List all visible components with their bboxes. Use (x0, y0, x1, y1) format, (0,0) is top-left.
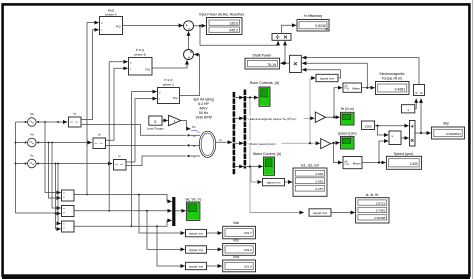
motor terminal A (187, 134, 189, 136)
svg-text:phase C: phase C (163, 82, 175, 86)
constant block 1500 (362, 121, 375, 130)
wire divide to % efficiency display (282, 25, 297, 33)
wire gain to Te scope (326, 116, 340, 118)
svg-text:2.563: 2.563 (315, 180, 323, 184)
wire slip sum to Slip display (415, 132, 431, 134)
wire phase B tap to vab (49, 143, 61, 199)
wire speed branch down to Mean2 (334, 143, 343, 163)
svg-text:Ic: Ic (118, 154, 121, 158)
svg-text:Va, Vb, Vc: Va, Vb, Vc (185, 197, 202, 201)
wire P&Q C to lower sum (180, 55, 200, 96)
svg-text:3ph IM rating: 3ph IM rating (193, 97, 213, 101)
svg-text:Torque (N.m): Torque (N.m) (382, 76, 402, 80)
svg-text:signal rms: signal rms (320, 76, 335, 80)
wire vca tap up to P&Q C input 1 (132, 92, 157, 227)
signal rms block (Vbc) (186, 246, 207, 253)
wire signal rms1 to product input 3 (302, 70, 340, 78)
mean block 1 (343, 83, 362, 92)
signal name electromagnetic torque (248, 116, 304, 121)
wire slip divide to slip sum input 2 (401, 137, 409, 139)
svg-text:2.563: 2.563 (315, 172, 323, 176)
signal rms block 2 (stator) (263, 178, 285, 185)
motor terminal B (187, 144, 189, 146)
svg-text:219.8: 219.8 (244, 264, 252, 268)
wire torque branch up to Mean1 (334, 88, 342, 118)
neutral rail wire (15, 122, 17, 213)
svg-text:345.2: 345.2 (229, 28, 238, 32)
svg-text:4.30388: 4.30388 (374, 216, 385, 220)
svg-text:Vca: Vca (233, 255, 239, 259)
wire mux to voltage scope (175, 210, 185, 212)
signal rms block 3 (rotor) (309, 209, 331, 216)
wire shaft power branch to divide input 2 (284, 41, 286, 63)
sum block (P+Q totals) lower (184, 50, 194, 60)
signal rms block (Vca) (186, 262, 207, 269)
wire Mean2 to Speed display (362, 162, 386, 164)
gain block torque (315, 112, 325, 122)
svg-text:Electromagnetic: Electromagnetic (379, 72, 404, 76)
gain block speed (321, 139, 331, 149)
svg-text:PQ: PQ (116, 25, 121, 29)
wire speed branch up to signal rms1 (310, 78, 316, 143)
wire signal rms to Vbc display (207, 248, 222, 250)
wire P&Q A to upper sum (123, 25, 183, 27)
wire bar1 to bar2 speed (235, 142, 243, 144)
signal rms block 1 (top) (316, 74, 338, 81)
constant block Load Torque (149, 116, 162, 125)
svg-text:signal rms: signal rms (189, 232, 204, 236)
wire P&Q B to lower sum (152, 60, 187, 68)
voltage measurement block vab (62, 190, 75, 201)
subsystem P&Q phase A (100, 17, 123, 35)
wire vbc tap up to P&Q B input 1 (109, 62, 128, 211)
subsystem P&Q phase C (158, 88, 180, 104)
svg-text:219.2: 219.2 (244, 248, 252, 252)
wire gain to motor Tm input (181, 121, 191, 129)
svg-text:Shaft Power: Shaft Power (252, 54, 272, 58)
svg-text:m: m (219, 138, 222, 142)
svg-text:phase B: phase B (134, 52, 145, 56)
wire Va to Ia (36, 121, 67, 123)
current measurement block Ib (93, 138, 106, 149)
svg-text:% efficiency: % efficiency (304, 14, 323, 18)
svg-text:Tm: Tm (192, 125, 197, 129)
svg-text:0.0500094: 0.0500094 (446, 132, 461, 136)
svg-text:signal rms: signal rms (189, 248, 204, 252)
wire subtract block to product input 1 (302, 58, 419, 85)
svg-text:Slip: Slip (443, 121, 449, 125)
svg-text:signal rms: signal rms (266, 181, 281, 185)
wire demux torque to gain (246, 117, 314, 119)
wire phase C tap to vbc (56, 164, 61, 214)
svg-text:Vbc: Vbc (233, 238, 239, 242)
wire Vc to Ic (36, 163, 112, 165)
wire phase C tap to vca (58, 164, 61, 224)
svg-text:75.19: 75.19 (267, 63, 276, 67)
wire torque mean branch to product input 2 (302, 63, 367, 87)
motor terminal C (187, 155, 189, 157)
wire phase B tap to vbc (52, 143, 61, 209)
svg-text:Stator Current, (A): Stator Current, (A) (253, 152, 282, 156)
wire slip branch up to subtract block (420, 99, 422, 133)
AC voltage source Vb (28, 138, 37, 147)
svg-text:Vb: Vb (30, 132, 34, 136)
svg-text:Va: Va (30, 112, 34, 116)
window edge line (472, 0, 474, 279)
gain block -1 (169, 115, 181, 125)
sum block slip (tall) (410, 121, 416, 147)
subsystem P&Q phase B (129, 58, 153, 76)
scope Te (green) (341, 112, 355, 125)
AC voltage source Vc (28, 159, 37, 168)
wire bar1 to bar2 rotor current (235, 97, 243, 99)
svg-text:5.4 HP: 5.4 HP (198, 102, 209, 106)
display Vca (223, 260, 256, 272)
product block (shaft power, mirrored) (290, 55, 302, 72)
svg-text:Mean: Mean (353, 162, 361, 166)
voltage measurement block vca (62, 221, 75, 232)
wire Vb to Ib (36, 142, 92, 144)
wire vab tap up to P&Q A input 1 (87, 23, 99, 195)
divide block (efficiency) (272, 34, 291, 41)
svg-text:219.7: 219.7 (244, 231, 252, 235)
svg-text:signal rms: signal rms (313, 211, 328, 215)
wire Load Torque to gain (162, 120, 168, 122)
wire Ia signal to P&Q A input 2 (81, 30, 99, 120)
sum block (P+Q totals) upper (184, 21, 194, 31)
svg-text:PQ: PQ (146, 68, 151, 72)
wire neutral rail to vca (16, 213, 61, 229)
wire gain2 to speed scope (331, 143, 340, 144)
display Speed rpm (386, 156, 421, 169)
wire Mean2 branch up to slip divide input 2 (379, 141, 388, 163)
svg-text:phase A: phase A (105, 13, 117, 17)
voltage measurement block vbc (62, 206, 75, 217)
svg-text:Rotor Currents, (A): Rotor Currents, (A) (250, 81, 280, 85)
signal name rotor speed (248, 141, 282, 146)
signal rms block (Vab) (186, 229, 207, 236)
svg-text:460V: 460V (199, 107, 208, 111)
scope Rotor Currents (green) (259, 87, 270, 106)
wire signal rms2 to Is display (285, 181, 293, 183)
constant block 1 (402, 105, 415, 113)
AC voltage source Va (28, 118, 37, 127)
wire stator branch down to signal rms2 (250, 167, 262, 183)
display Shaft Power (245, 58, 280, 69)
wire vbc tap down to signal rms (147, 211, 185, 250)
svg-text:<Rotor speed (wm)>: <Rotor speed (wm)> (248, 142, 276, 146)
svg-text:Vab: Vab (233, 221, 239, 225)
wire product to Shaft Power display (280, 62, 289, 64)
wire vab tap down to signal rms (139, 195, 185, 234)
wire 1500 to slip sum (375, 125, 409, 127)
svg-text:1: 1 (407, 108, 409, 112)
svg-text:Speed (rpm): Speed (rpm) (394, 152, 413, 156)
wire rotor current down to signal rms3 (250, 98, 304, 213)
svg-text:1430: 1430 (410, 162, 418, 166)
svg-text:signal rms: signal rms (189, 264, 204, 268)
svg-text:speed (rpm): speed (rpm) (338, 131, 357, 135)
wire vbc to mux input 2 (74, 210, 172, 212)
scope speed (green) (341, 136, 355, 149)
svg-text:PQ: PQ (173, 96, 178, 100)
wire signal rms to Vab display (207, 232, 222, 234)
display Is1 Is2 Is0 (three values) (293, 168, 327, 196)
display Vab (223, 226, 256, 239)
wire lower sum to upper sum (188, 32, 190, 50)
wire Ib signal to P&Q B input 2 (106, 68, 128, 140)
svg-text:135.6: 135.6 (229, 21, 238, 25)
wire upper sum to Input Power display (194, 25, 206, 27)
asynchronous machine block (motor) (199, 131, 215, 157)
display Electromagnetic Torque (376, 82, 410, 95)
wire bar1 to bar2 stator current (235, 166, 243, 168)
svg-text:B: B (193, 144, 195, 148)
svg-text:Is1, Is2, Is0: Is1, Is2, Is0 (301, 163, 319, 167)
wire Ic signal to P&Q C input 2 (126, 99, 157, 162)
wire bar1 to bar2 torque (235, 117, 243, 119)
wire input power branch to divide input 1 (200, 26, 278, 46)
display Slip (432, 127, 465, 139)
wire phase A tap to vab (45, 122, 61, 193)
mean block 2 (343, 157, 362, 169)
wire constant 1 to subtract block (415, 99, 416, 109)
display Input Power (two values) (207, 18, 243, 35)
wire vca to mux input 3 (74, 220, 172, 226)
svg-text:Load Torque: Load Torque (147, 126, 164, 130)
divide block slip (389, 131, 401, 145)
svg-text:2.257: 2.257 (315, 187, 323, 191)
svg-text:Te (N.m): Te (N.m) (340, 107, 353, 111)
svg-text:Ia, Ib, Ifr: Ia, Ib, Ifr (366, 193, 380, 197)
scope Va Vb Vc (green) (186, 202, 200, 220)
display Vbc (223, 244, 256, 256)
wire 1500 branch to slip divide input 1 (378, 126, 389, 135)
svg-text:Vc: Vc (30, 153, 34, 157)
wire motor m output to demux (216, 141, 232, 143)
wire signal rms3 to Ia Ib display (331, 212, 355, 214)
bus selector bar 1 (233, 92, 236, 175)
svg-text:50 Hz: 50 Hz (199, 111, 208, 115)
wire demux to rotor scope (246, 97, 258, 99)
current measurement block Ic (114, 160, 127, 171)
svg-text:0.7481: 0.7481 (376, 209, 386, 213)
wire signal rms to Vca display (207, 265, 222, 267)
subtract block (1-slip) (414, 85, 425, 96)
wire Mean1 to EM torque display (362, 87, 375, 89)
svg-text:0.9721: 0.9721 (376, 201, 386, 205)
current measurement block Ia (69, 117, 82, 127)
scope Stator Current (green) (264, 157, 275, 175)
svg-text:Ib: Ib (98, 133, 101, 137)
svg-text:<Electromagnetic torque Te (N*: <Electromagnetic torque Te (N*m)> (248, 117, 297, 121)
wire demux speed to gain2 (246, 142, 320, 144)
svg-text:-1: -1 (173, 119, 176, 123)
wire vca tap down to signal rms (157, 226, 185, 266)
mux block (voltages) (172, 197, 175, 226)
display Ia Ib Ifr (three values) (356, 198, 389, 223)
display % efficiency (297, 20, 329, 32)
svg-text:0.4661: 0.4661 (395, 87, 406, 91)
svg-text:0.5240: 0.5240 (315, 24, 326, 28)
wire Ib out to motor terminal B (106, 144, 187, 146)
wire Ia out to motor terminal A (81, 125, 187, 136)
svg-text:Mean: Mean (352, 87, 360, 91)
svg-text:1500: 1500 (365, 125, 372, 129)
wire demux to stator scope (246, 166, 263, 168)
svg-text:Input Power (Active, Reactive): Input Power (Active, Reactive) (199, 13, 244, 17)
svg-text:1430 RPM: 1430 RPM (195, 116, 212, 120)
svg-text:Ia: Ia (73, 112, 76, 116)
bus selector bar 2 (244, 90, 247, 169)
wire Ic out to motor terminal C (126, 156, 187, 166)
wire vab to mux input 1 (74, 195, 172, 202)
